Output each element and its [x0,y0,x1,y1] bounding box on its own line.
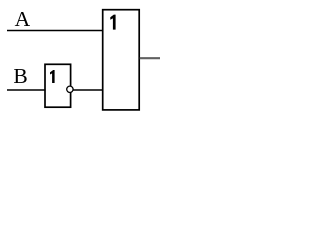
inverter U2 body [45,64,71,107]
wire inverter U2 output to gate U1 [71,89,104,91]
inverter U2 output bubble [67,86,73,92]
wire A input to gate U1 [7,30,103,32]
svg-text:A: A [15,7,31,31]
gate U1 label 1 [110,15,115,30]
svg-text:B: B [13,64,27,88]
wire output of gate U1 [140,57,160,59]
gate U1 body [103,10,140,110]
wire B input to inverter U2 [7,89,46,91]
inverter U2 label 1 [50,70,55,83]
